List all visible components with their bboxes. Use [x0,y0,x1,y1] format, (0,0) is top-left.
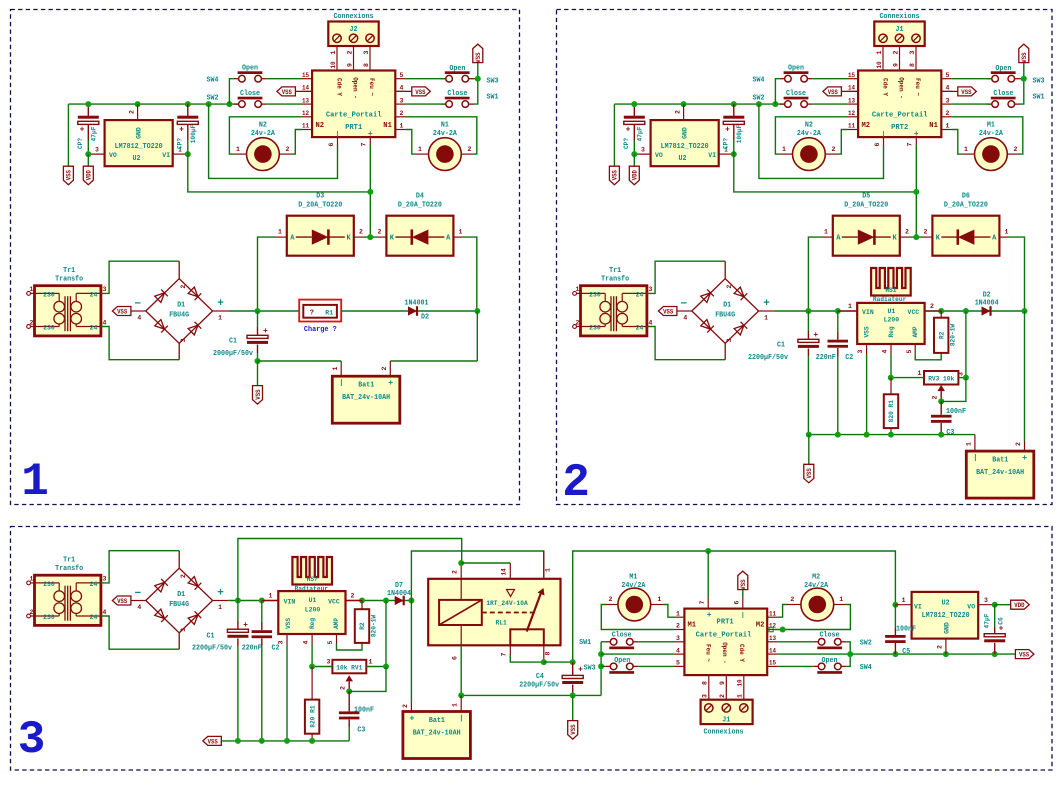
svg-text:1: 1 [400,123,404,130]
svg-text:U2: U2 [679,155,687,163]
svg-text:5: 5 [946,72,950,79]
svg-text:VI: VI [914,604,922,612]
svg-text:SW3: SW3 [584,665,596,673]
svg-text:4: 4 [676,647,680,654]
svg-text:47µF: 47µF [984,613,991,628]
svg-text:VSS: VSS [612,170,619,180]
svg-text:LM7812_TO220: LM7812_TO220 [922,612,970,620]
svg-text:2: 2 [892,50,899,54]
svg-text:Feu ~: Feu ~ [914,78,921,96]
capacitor C4 2200uF/50v [572,662,574,675]
wire D3 anode [258,237,277,311]
svg-text:24: 24 [90,581,98,589]
svg-text:24: 24 [90,614,98,622]
PRT1 pin 6 VSS flag [742,590,744,598]
svg-text:C5: C5 [902,648,910,656]
svg-text:1RT_24V-10A: 1RT_24V-10A [486,600,528,607]
svg-text:4: 4 [137,604,141,611]
wire diode common [909,236,924,238]
junction U2 output [85,151,91,157]
wire ground row [258,360,342,362]
svg-text:D6: D6 [962,193,970,201]
svg-text:2: 2 [790,596,794,603]
svg-text:N2: N2 [316,122,325,130]
svg-text:2: 2 [400,110,404,117]
svg-text:|: | [882,131,886,138]
wire U1 AMP pin5 [336,634,338,644]
panel 3 border [11,527,1053,771]
svg-text:C3: C3 [357,727,365,735]
svg-text:230: 230 [43,581,55,589]
svg-text:VSS: VSS [285,618,292,629]
wire main DC line [774,310,1024,312]
power flag VSS bridge [112,307,130,316]
svg-text:GND: GND [682,127,690,139]
svg-text:3: 3 [103,286,107,293]
capacitor C1 2000uF/50v [257,311,259,327]
svg-text:Cde Y: Cde Y [738,644,745,662]
wire bridge + output [213,600,229,602]
svg-text:3: 3 [180,628,187,632]
svg-text:FBU4G: FBU4G [169,312,189,320]
svg-text:2: 2 [676,623,680,630]
svg-text:Charge ?: Charge ? [304,326,337,334]
svg-text:1: 1 [676,610,680,617]
wire main DC line [228,310,477,312]
svg-text:SW1: SW1 [487,94,499,102]
capacitor CP7 100uF [187,104,189,116]
svg-text:M2: M2 [812,574,820,582]
wire +24 feed to PRT pin7 [734,154,917,192]
svg-text:C2: C2 [272,645,280,653]
svg-text:Carte_Portail: Carte_Portail [696,631,752,639]
wire to top VSS flag [1023,63,1025,79]
svg-text:VCC: VCC [328,599,340,607]
svg-text:24v-2A: 24v-2A [979,130,1004,138]
svg-text:+: + [707,611,712,620]
svg-text:SW3: SW3 [487,78,499,86]
wire ground rail [809,434,975,436]
battery Bat1 BAT_24v-10AH [974,435,976,452]
svg-text:GND: GND [136,127,144,139]
wire bridge + output [213,310,229,312]
svg-text:D_20A_TO220: D_20A_TO220 [844,202,888,210]
svg-text:U2: U2 [133,155,141,163]
svg-text:230: 230 [589,292,601,300]
svg-text:Open -: Open - [898,77,905,99]
svg-text:2: 2 [286,146,290,153]
svg-text:Transfo: Transfo [55,565,83,573]
resistor R1 820 [884,394,898,428]
capacitor C3 100nF [940,401,942,414]
power flag VSS below rail [808,435,810,465]
potentiometer RV1 10k [385,601,387,667]
svg-text:D7: D7 [395,582,403,590]
svg-text:7: 7 [361,142,368,146]
wire top rail 1 [238,539,462,601]
capacitor C2 220nF [837,311,839,332]
wire transformer to bridge top [101,551,179,583]
svg-text:820-1W: 820-1W [950,324,957,346]
power flag VDD [995,604,1011,606]
capacitor C1 2200uF/50v [237,601,239,622]
svg-text:2: 2 [340,686,347,690]
svg-text:11: 11 [302,123,309,130]
wire U1 Reg pin4 [890,344,892,354]
svg-text:100µF: 100µF [736,125,743,144]
wire left VSS drop [67,104,69,166]
junction dots rail [85,101,91,107]
svg-text:Feu ~: Feu ~ [368,78,375,96]
resistor R1 Charge highlighted [299,300,341,322]
svg-text:R1: R1 [325,309,333,317]
svg-text:220nF: 220nF [816,354,836,362]
svg-text:VI: VI [708,152,716,160]
svg-text:D3: D3 [316,193,324,201]
svg-text:3: 3 [327,659,331,666]
svg-text:VDD: VDD [1014,602,1024,609]
svg-text:PRT1: PRT1 [345,124,363,132]
svg-text:3: 3 [363,50,370,54]
svg-text:VO: VO [967,604,975,612]
svg-text:7: 7 [907,142,914,146]
svg-text:HS1: HS1 [885,287,896,294]
svg-text:15: 15 [769,660,776,667]
svg-text:3: 3 [676,635,680,642]
svg-text:CP?: CP? [177,138,184,149]
svg-text:SW3: SW3 [1033,78,1045,86]
svg-text:8: 8 [701,681,708,685]
wire VSS rail [614,103,784,105]
power flag VSS below C4 [572,695,574,720]
power flag VDD [629,166,639,185]
svg-text:D_20A_TO220: D_20A_TO220 [944,202,988,210]
svg-text:Tr1: Tr1 [63,267,75,275]
svg-text:J1: J1 [722,717,730,725]
svg-text:2: 2 [451,570,458,574]
svg-text:AMP: AMP [912,326,919,337]
svg-text:3: 3 [641,147,645,154]
label VSS at pin 4 right [941,90,958,92]
svg-text:3: 3 [984,597,988,604]
svg-text:N2: N2 [805,122,813,130]
capacitor C5 100nF [892,602,898,608]
svg-text:Open -: Open - [721,642,728,664]
svg-text:230: 230 [43,292,55,300]
svg-text:VSS: VSS [828,89,838,96]
svg-text:12: 12 [769,623,776,630]
svg-text:VSS: VSS [961,89,971,96]
svg-text:1: 1 [657,596,661,603]
svg-text:U1: U1 [309,597,317,605]
svg-text:47µF: 47µF [91,126,98,141]
svg-text:2: 2 [359,228,363,235]
svg-text:+: + [763,298,770,310]
relay pins 7 8 [509,645,511,655]
relay pin 2 coil top [460,563,462,579]
relay pin 6 coil bottom [460,625,462,645]
svg-text:3: 3 [958,372,965,376]
wire +24 feed to PRT pin7 [188,154,370,192]
svg-text:D2: D2 [421,314,429,322]
svg-text:230: 230 [43,325,55,333]
svg-text:SW1: SW1 [579,639,591,647]
svg-text:1: 1 [30,576,34,583]
capacitor CP? 47uF [87,104,89,116]
svg-text:230: 230 [589,325,601,333]
svg-text:LM7812_TO220: LM7812_TO220 [115,143,163,151]
svg-text:24: 24 [90,292,98,300]
svg-text:6: 6 [733,600,740,604]
svg-text:2200µF/50v: 2200µF/50v [748,354,789,362]
svg-text:4: 4 [649,319,653,326]
svg-text:1: 1 [452,703,459,707]
svg-text:+: + [999,625,1004,634]
svg-text:Connexions: Connexions [880,13,920,21]
svg-text:D4: D4 [416,193,424,201]
svg-text:1: 1 [1005,228,1009,235]
wire left VSS drop [613,104,615,166]
svg-text:1: 1 [269,593,273,600]
svg-text:7: 7 [699,600,706,604]
svg-text:C3: C3 [946,429,954,437]
svg-text:2: 2 [905,228,909,235]
svg-text:10: 10 [330,61,337,68]
pin7 feed wire [369,137,371,145]
svg-text:6: 6 [451,656,458,660]
svg-text:15: 15 [848,72,855,79]
svg-text:100nF: 100nF [896,626,916,634]
svg-text:2: 2 [402,704,409,708]
svg-text:14: 14 [769,647,776,654]
svg-text:10: 10 [736,679,743,686]
resistor R2 820-1W [934,318,948,353]
svg-text:2: 2 [608,596,612,603]
svg-text:N2: N2 [259,122,267,130]
svg-text:3: 3 [180,338,187,342]
svg-text:13: 13 [769,635,776,642]
svg-text:Cde Y: Cde Y [336,78,343,96]
svg-text:|: | [336,131,340,138]
svg-text:+: + [578,666,583,675]
wire top rail 2 right [573,551,896,662]
wire to top VSS flag [477,63,479,79]
power flag VDD [83,166,93,185]
svg-text:M1: M1 [987,122,995,130]
svg-text:14: 14 [302,85,309,92]
wire VSS ground rail [221,740,349,742]
svg-text:D1: D1 [723,302,731,310]
svg-text:1: 1 [839,596,843,603]
svg-text:Bat1: Bat1 [992,457,1008,465]
wire VSS row right [778,653,1016,655]
svg-text:2: 2 [719,694,726,698]
svg-text:2: 2 [351,593,355,600]
svg-text:12: 12 [302,110,309,117]
svg-text:5: 5 [400,72,404,79]
wire VDD drop [633,154,635,166]
svg-text:Reg: Reg [888,326,895,337]
svg-text:2200µF/50v: 2200µF/50v [519,682,560,690]
svg-text:1: 1 [30,286,34,293]
svg-text:Bat1: Bat1 [358,382,374,390]
wire PRT pin6 return [759,104,884,178]
svg-text:VI: VI [162,152,170,160]
svg-text:Connexions: Connexions [704,729,744,737]
svg-text:SW2: SW2 [860,640,872,648]
label VSS at pin 14 [823,87,842,96]
svg-text:3: 3 [103,576,107,583]
svg-text:820 R1: 820 R1 [309,705,316,727]
wire transformer to bridge bottom [647,327,725,360]
svg-text:24: 24 [90,325,98,333]
svg-text:C4: C4 [536,673,544,681]
svg-text:1: 1 [824,228,828,235]
svg-text:5: 5 [327,640,334,644]
svg-text:LM7812_TO220: LM7812_TO220 [661,143,709,151]
svg-text:M1: M1 [688,622,697,630]
svg-text:VSS: VSS [1021,52,1028,62]
wire wiper to pin3 node [941,378,966,402]
wire relay to C4 [544,661,573,663]
svg-text:C2: C2 [845,354,853,362]
svg-text:3: 3 [95,147,99,154]
svg-text:BAT_24v-10AH: BAT_24v-10AH [342,394,390,402]
svg-text:11: 11 [848,123,855,130]
svg-text:VSS: VSS [864,326,871,337]
svg-text:M2: M2 [862,122,871,130]
regulator U1 L200 [857,303,924,344]
power flag VSS rail left [203,736,222,745]
svg-text:3: 3 [946,97,950,104]
svg-text:R2: R2 [938,332,945,339]
capacitor C2 220nF [261,601,263,623]
svg-text:SW4: SW4 [207,76,219,84]
wire diode common [363,236,378,238]
svg-text:RV3 10k: RV3 10k [928,376,954,383]
relay armature [527,592,542,632]
junction C1 ground [255,358,261,364]
svg-text:|: | [973,455,977,463]
svg-text:1: 1 [946,123,950,130]
svg-text:L200: L200 [884,317,900,325]
svg-text:2: 2 [30,609,34,616]
svg-text:?: ? [310,309,314,317]
svg-text:3: 3 [909,50,916,54]
junction dots rail [631,101,637,107]
panel 1 border [11,10,520,505]
wire SW vertical VSS [600,642,602,696]
svg-text:24v-2A: 24v-2A [433,130,458,138]
wire PRT pin6 return [209,104,338,178]
junction U2 output [631,151,637,157]
svg-text:VCC: VCC [908,309,920,317]
svg-text:M2: M2 [756,622,765,630]
wire U1 Reg pin4 [311,634,313,644]
svg-text:Carte_Portail: Carte_Portail [326,112,382,120]
svg-text:3: 3 [400,97,404,104]
svg-text:VSS: VSS [117,308,127,315]
svg-text:D2: D2 [983,292,991,300]
svg-text:10k RV1: 10k RV1 [336,664,362,671]
svg-text:2: 2 [180,285,187,289]
wire wiper to pin1 node [349,667,386,692]
svg-text:3: 3 [726,338,733,342]
svg-text:2: 2 [30,319,34,326]
svg-text:+: + [80,126,85,135]
power flag VSS left [63,166,73,185]
svg-text:4: 4 [946,85,950,92]
svg-text:1: 1 [876,50,883,54]
svg-text:1: 1 [236,146,240,153]
component Carte_Portail PRT1 [312,71,395,138]
svg-text:VSS: VSS [282,89,292,96]
svg-text:L200: L200 [305,607,321,615]
PRT1 pin 7 supply [707,551,709,598]
svg-text:6: 6 [328,142,335,146]
svg-text:8: 8 [363,63,370,67]
wire D7 to battery plus [410,601,412,704]
svg-text:1: 1 [576,286,580,293]
svg-text:1: 1 [218,315,222,322]
svg-text:4: 4 [683,315,687,322]
capacitor C3 100nF [348,691,350,711]
bridge rectifier D1 FBU4G [178,551,180,568]
svg-text:2: 2 [946,110,950,117]
svg-text:M1: M1 [629,574,637,582]
svg-text:4: 4 [400,85,404,92]
svg-text:9: 9 [346,63,353,67]
svg-text:AMP: AMP [333,618,340,629]
svg-text:N1: N1 [441,122,449,130]
capacitor CP7 100uF [733,104,735,116]
capacitor C1 2200uF/50v [807,311,809,331]
svg-text:PRT2: PRT2 [891,124,909,132]
svg-text:3: 3 [18,714,46,766]
regulator U2 LM7812_TO220 [912,592,979,639]
svg-text:D1: D1 [177,591,185,599]
svg-text:2: 2 [930,303,934,310]
svg-text:2: 2 [1015,442,1022,446]
wire main DC line [228,600,411,602]
wire D6 anode [1008,237,1025,311]
svg-text:2: 2 [381,366,388,370]
svg-text:1N4004: 1N4004 [975,300,999,308]
svg-text:1: 1 [332,366,339,370]
svg-text:100nF: 100nF [354,707,374,715]
svg-text:5: 5 [906,349,913,353]
svg-text:SW4: SW4 [860,664,872,672]
capacitor C6 47uF [994,605,996,627]
svg-text:24: 24 [636,325,644,333]
svg-text:VSS: VSS [255,389,262,399]
svg-text:N1: N1 [383,122,392,130]
svg-text:820 R1: 820 R1 [888,400,895,422]
svg-text:Reg: Reg [309,618,316,629]
svg-text:13: 13 [302,97,309,104]
svg-text:8: 8 [909,63,916,67]
heatsink HS1 Radiateur [871,268,911,296]
svg-text:+: + [217,298,224,310]
wire U1 VSS pin3 [866,344,868,354]
svg-text:Carte_Portail: Carte_Portail [872,112,928,120]
svg-text:12: 12 [848,110,855,117]
svg-text:RL1: RL1 [495,620,506,627]
svg-text:1: 1 [782,146,786,153]
svg-text:SW4: SW4 [753,76,765,84]
svg-text:8: 8 [545,651,552,655]
svg-text:11: 11 [769,610,776,617]
